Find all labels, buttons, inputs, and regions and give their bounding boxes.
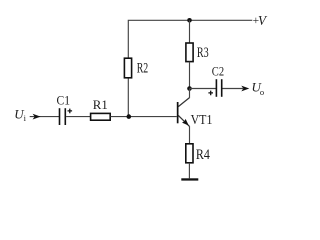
svg-text:VT1: VT1	[191, 112, 213, 127]
wire C1 to R1	[66, 116, 90, 118]
svg-text:C2: C2	[212, 64, 224, 79]
node collector junction	[187, 86, 192, 91]
svg-text:C1: C1	[57, 93, 71, 108]
capacitor C2	[208, 64, 224, 97]
label +V	[253, 13, 268, 28]
wire emitter vertical	[189, 126, 191, 143]
wire R3 top	[189, 20, 191, 43]
wire R3 bottom to collector node	[189, 62, 191, 89]
resistor R4	[186, 144, 193, 163]
wire R2 bottom to base node	[127, 78, 129, 117]
svg-text:R1: R1	[93, 97, 108, 112]
transistor VT1	[177, 98, 213, 128]
resistor R3	[186, 43, 193, 62]
svg-text:R3: R3	[197, 45, 209, 61]
svg-text:o: o	[260, 87, 264, 97]
wire output with arrow	[223, 88, 244, 90]
wire input with arrow	[30, 116, 59, 118]
node supply junction	[187, 18, 192, 23]
ground	[181, 178, 198, 180]
svg-text:R4: R4	[196, 147, 211, 163]
wire top supply rail	[128, 20, 252, 58]
label Ui	[14, 107, 26, 123]
wire collector vertical	[189, 89, 191, 98]
svg-text:R2: R2	[137, 60, 149, 76]
resistor R1	[91, 113, 111, 120]
wire collector node to C2	[190, 88, 217, 90]
label Uo	[252, 79, 265, 97]
capacitor C1	[57, 93, 73, 126]
node base junction	[127, 114, 132, 119]
wire R1 to base	[110, 116, 176, 118]
resistor R2	[124, 58, 131, 78]
wire R4 to ground	[188, 163, 190, 179]
